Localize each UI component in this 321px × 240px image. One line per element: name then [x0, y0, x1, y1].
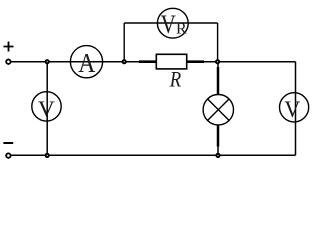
node junction top-left — [46, 60, 49, 63]
node junction bottom-right — [216, 154, 219, 157]
resistor right lead thick — [187, 60, 204, 63]
svg-text:A: A — [78, 47, 95, 78]
ammeter U-A circle — [70, 46, 102, 78]
svg-text:R: R — [169, 68, 182, 92]
wire VR loop right vertical — [217, 23, 219, 62]
wire lamp branch upper thin — [217, 62, 219, 68]
svg-text:R: R — [176, 21, 187, 38]
voltmeter right circle — [280, 93, 309, 122]
wire lamp branch top lead thick — [217, 67, 220, 95]
wire right vertical — [295, 62, 297, 156]
svg-text:V: V — [38, 96, 55, 120]
wire VR loop left vertical — [123, 23, 125, 62]
svg-text:V: V — [161, 11, 177, 40]
wire top main — [12, 61, 296, 63]
lamp EL circle — [203, 95, 233, 125]
wire VR loop top horizontal — [124, 22, 217, 24]
terminal plus — [5, 59, 11, 65]
resistor left lead thick — [139, 60, 156, 63]
resistor R box — [156, 54, 186, 69]
node junction bottom-left — [46, 154, 49, 157]
node junction top-mid — [123, 60, 126, 63]
terminal minus — [5, 153, 11, 159]
voltmeter VR circle — [157, 8, 188, 38]
polarity plus sign — [4, 42, 14, 52]
svg-text:V: V — [284, 96, 301, 122]
lamp cross diagonal 1 — [208, 99, 229, 120]
wire lamp branch lower thin — [217, 146, 219, 155]
wire left branch vertical — [46, 62, 48, 156]
lamp cross diagonal 2 — [208, 99, 229, 120]
polarity minus sign — [3, 142, 13, 144]
wire lamp branch bottom lead thick — [217, 125, 220, 147]
node junction top-right — [216, 60, 219, 63]
wire bottom main — [12, 154, 296, 156]
voltmeter left circle — [32, 92, 61, 121]
